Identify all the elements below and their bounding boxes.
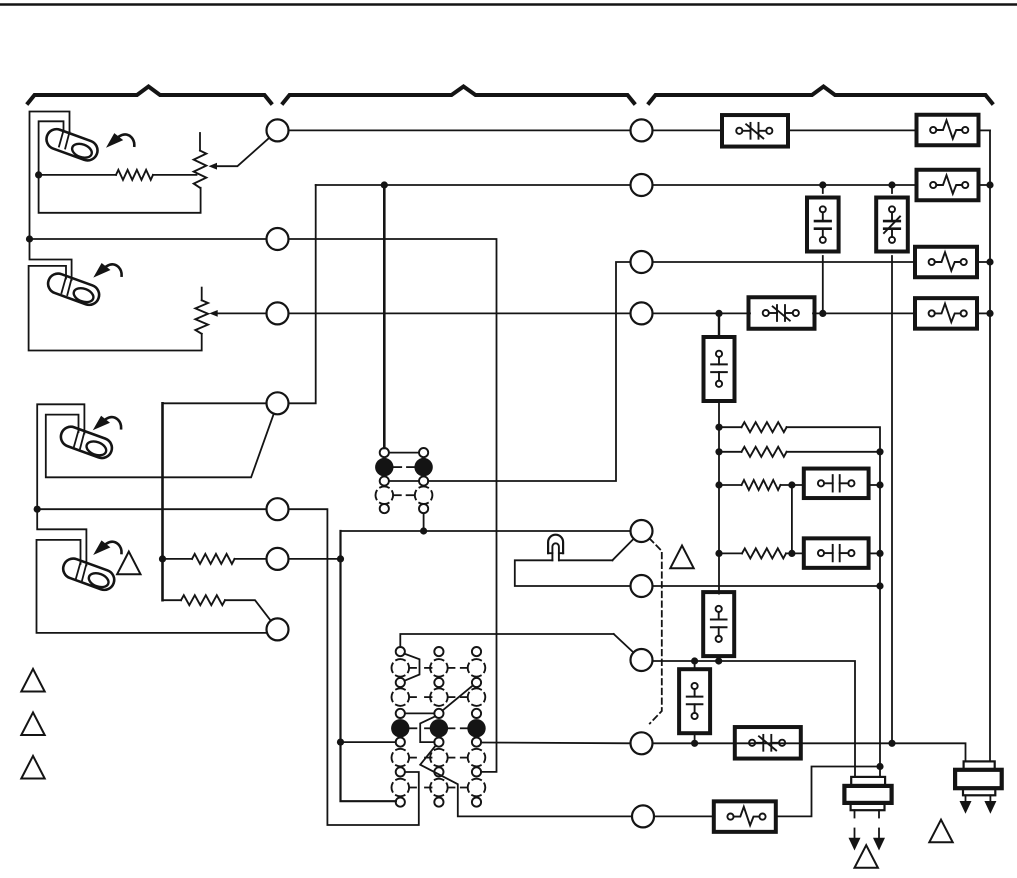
node: RA branch [715, 424, 722, 431]
jumper block filled position A [375, 458, 393, 476]
resistor RA [742, 422, 787, 432]
wire: R3 blade to terminal T7 [225, 600, 271, 621]
wire: row 185 [316, 184, 631, 186]
drum switch tie dashes [410, 668, 468, 788]
warning triangle near S4 [117, 552, 140, 575]
wire: S4 electrode B loop to T7 [37, 540, 268, 633]
wire: CPB to rail [869, 552, 880, 554]
plug P1 lead arrows [849, 810, 886, 850]
potentiometer P2 body [195, 300, 208, 333]
drum switch dashed cams row 758 [392, 749, 486, 767]
wire: M7 row to plug riser [653, 661, 856, 777]
wire: S3 electrode A hook down to node 509 [37, 404, 84, 509]
wire: R1 to potentiometer P1 body [153, 174, 197, 176]
capacitor box CPA [804, 469, 869, 499]
wire: T4 right up to row 185 [289, 185, 316, 403]
contact box K3 (NC) row 743 [735, 727, 801, 759]
resistor R1 [116, 170, 153, 180]
brace: right section [649, 87, 992, 104]
heater box H3 row 3 [915, 247, 977, 278]
wire: T5 right big loop to drum column [289, 509, 419, 825]
mercury switch S3 rotation arrow [93, 416, 121, 431]
wire: M4 row to right [653, 312, 751, 314]
link: col1 s3 to col2 s3 [405, 712, 434, 714]
wire: branch row 485 [719, 484, 742, 486]
right rail x990 [989, 130, 991, 761]
mercury switch S2 capsule [45, 271, 102, 308]
wire: vertical x340 [341, 531, 396, 801]
wire: branch row 452 [719, 451, 742, 453]
drum switch dashed cams row 668 [392, 659, 486, 677]
brace: left section [28, 87, 271, 104]
wire: jumper block top tie [389, 452, 419, 454]
heater box H1 row 1 [917, 115, 979, 146]
wire: M5 blade to lamp run [612, 539, 633, 561]
wire: feeder x384 to jumper block [383, 185, 386, 448]
wire: S3 electrode B loop and blade to T4 [46, 414, 274, 478]
wire: S1 electrode A hook to left rail [30, 112, 70, 240]
wire: CE bottom lead [694, 733, 696, 744]
wire: CE top lead [694, 661, 696, 670]
wire: M1 to relay box R1A [653, 129, 723, 131]
wire: M8 row to right plug [653, 743, 966, 761]
wire: H1 to right rail [979, 129, 991, 131]
wire: RD to capacitor box CPB [786, 552, 804, 554]
heater box H5 bottom [714, 801, 776, 832]
node: rail892 bottom tee [888, 740, 895, 747]
wire: row4 from H4 to rail [977, 312, 990, 314]
node: row 185 grid feeder [381, 181, 388, 188]
terminal M5 [631, 520, 653, 542]
wire: bold column x162 [161, 403, 164, 600]
contact box CB vertical with slash [876, 198, 908, 252]
warning triangle at plug P1 [855, 845, 878, 868]
wire: junction to terminal T2 [30, 238, 267, 240]
wire: M9 to contact box B2 [654, 815, 713, 817]
plug P2 body [955, 761, 1002, 795]
wire: T6 right to vertical x340 [289, 558, 341, 560]
node: CPA link top [788, 481, 795, 488]
wire: jumper block middle tie [389, 480, 419, 482]
node: rail880 row 586 [876, 582, 883, 589]
potentiometer P1 wiper arrow [209, 163, 218, 170]
terminal T5 [267, 498, 289, 520]
warning triangle list item 2 [21, 712, 44, 735]
mercury switch S2 electrodes [62, 277, 72, 295]
terminal T6 [267, 548, 289, 570]
wire: H2 to rail [979, 184, 991, 186]
node: rail880 row 766 [876, 763, 883, 770]
wire: R2 to terminal T6 [235, 558, 267, 560]
wire: lamp run right [559, 559, 613, 561]
contact box K2 (NC) row 4 [749, 297, 815, 329]
wire: lamp run left [515, 560, 631, 586]
terminal M2 [631, 174, 653, 196]
heater box H4 row 4 [915, 298, 977, 329]
warning triangle list item 3 [21, 756, 44, 779]
wire: row4 between boxes [813, 312, 915, 314]
wire: row 1 to middle terminal [289, 129, 631, 131]
drum switch filled cams row 728 [391, 719, 486, 737]
node: rail row 185 [986, 181, 993, 188]
mercury switch S1 electrodes [59, 131, 70, 149]
node: rail row 262 [986, 258, 993, 265]
wire: row 313 between T3 and middle terminal [289, 312, 631, 314]
wire: S2 electrode B loop to P2 bottom [29, 266, 202, 351]
warning triangle beside dashed link [670, 546, 693, 569]
wire: diagonal into M7 [614, 634, 634, 653]
node: CA bottom tee [819, 310, 826, 317]
wire: CC top lead [718, 313, 720, 337]
resistor R2 [192, 554, 235, 564]
terminal M6 [631, 575, 653, 597]
link: col2 s3 bypass to s4 [420, 716, 435, 742]
wire: jumper pin B bottom to row 531 [423, 513, 425, 531]
potentiometer P1 body [194, 151, 207, 188]
jumper block filled position B [414, 458, 432, 476]
terminal M9 [632, 805, 654, 827]
drum switch column 2 small contacts [434, 647, 443, 807]
node: RC branch [715, 481, 722, 488]
terminal T2 [267, 228, 289, 250]
wire: branch row 553 [719, 552, 742, 554]
node: rail880 row 553 [876, 550, 883, 557]
jumper block dashed position B [415, 486, 433, 504]
node: bold junction row 559 [159, 555, 166, 562]
warning triangle list item 1 [21, 669, 44, 692]
node: S1 inner junction [35, 171, 42, 178]
node: x340 row 559 [337, 555, 344, 562]
wire: CPA to rail [869, 484, 880, 486]
node: RD branch [715, 550, 722, 557]
node: x340 row 742 [337, 739, 344, 746]
drum switch dashed cams row 787 [392, 779, 486, 797]
link: col2 s4 exit to M9 wire [420, 746, 632, 817]
contact box K1 (NC) row 1 [722, 115, 788, 147]
contact box CE vertical [679, 669, 710, 733]
mercury switch S4 electrodes [76, 562, 86, 580]
wire: CD bottom lead [718, 656, 720, 661]
wire: S1 loop to P1 bottom [39, 175, 201, 213]
wire: CA bottom lead [822, 256, 824, 313]
wire: M3 row to right [653, 261, 916, 263]
wire: H3 to rail [977, 261, 990, 263]
mercury switch S4 capsule [60, 556, 117, 593]
potentiometer P2 wiper arrow [209, 310, 218, 317]
terminal M4 [631, 302, 653, 324]
wire: P2 wiper to terminal T3 [218, 312, 267, 314]
jumper block dashed position A [376, 486, 394, 504]
capacitor box CPB [804, 538, 869, 568]
wire: K1 to heat relay box H1 [788, 129, 916, 131]
node: rail row 313 [986, 310, 993, 317]
wire: CB top lead [891, 185, 893, 193]
mercury switch S3 electrodes [74, 431, 84, 449]
wire: S2 electrode A hook [30, 239, 72, 280]
node: RB branch [715, 448, 722, 455]
terminal T4 [267, 392, 289, 414]
terminal M1 [631, 119, 653, 141]
node: rail880 row 452 [876, 448, 883, 455]
wire: P1 wiper to terminal T1 [216, 138, 270, 166]
wire: H5 to riser [777, 767, 881, 817]
indicator lamp [548, 535, 563, 561]
wire: S1 electrode B hook to junction [39, 121, 64, 175]
node: CD bottom tee [715, 657, 722, 664]
mercury switch S1 rotation arrow [106, 133, 134, 148]
wire: RA to right rail x880 [787, 427, 880, 777]
wire: M2 row to right [653, 184, 917, 186]
node: CE bottom tee [691, 740, 698, 747]
contact box CA vertical [807, 198, 839, 252]
wire: junction to resistor R1 [39, 174, 116, 176]
wire: jumper mid row to terminal M3 riser [428, 262, 630, 481]
wire: RB to rail [787, 451, 880, 453]
link: col3 s2 to col2 s3 [443, 685, 473, 710]
wire: link rows 485-553 [791, 485, 793, 553]
wire: col3 s4 to terminal M8 [481, 742, 630, 745]
drum switch column 1 small contacts [396, 647, 405, 807]
link: col1 bypass s1-s2 [404, 654, 419, 681]
wire: P2 top lead [201, 288, 203, 301]
heater box H2 row 2 [917, 170, 979, 201]
drum switch dashed cams row 697 [392, 688, 486, 706]
node: CB top tee [888, 181, 895, 188]
wire: M6 row to right rail [653, 585, 881, 587]
jumper block pin column B small contacts [419, 448, 428, 513]
node: rail880 row 485 [876, 481, 883, 488]
wire: resistor rail branch row 427 [719, 426, 742, 428]
wire: row 531 from corner x340 to terminal M5 [341, 530, 631, 532]
dashed gang link M5 to M8 [650, 539, 662, 724]
wire: CA top lead [822, 185, 824, 193]
mercury switch S2 rotation arrow [93, 263, 121, 278]
wire: bold column bottom into R3 [163, 599, 182, 601]
terminal T1 [267, 119, 289, 141]
contact box CC vertical [704, 337, 735, 401]
resistor R3 [181, 595, 225, 605]
page top border [0, 3, 1017, 5]
plug P2 lead arrows [960, 795, 997, 814]
node: CPB link bottom [788, 550, 795, 557]
wire: T4 left to bold column [163, 402, 267, 404]
mercury switch S1 capsule [44, 126, 101, 163]
terminal T7 [267, 618, 289, 640]
wire: junction to resistor R2 [163, 558, 193, 560]
jumper block tie dashes row 467 [394, 466, 414, 468]
wire: S4 electrode A hook [37, 509, 86, 565]
resistor RC [742, 480, 781, 490]
resistor RB [742, 447, 787, 457]
jumper block pin column A small contacts [380, 448, 389, 513]
brace: middle section [283, 87, 634, 104]
node: CE top tee [691, 657, 698, 664]
wire: P1 top lead [199, 133, 201, 151]
mercury switch S3 capsule [58, 424, 115, 461]
terminal M8 [631, 732, 653, 754]
wire: CC bottom rail to box CD [718, 401, 720, 594]
wire: top feed to drum col1 and terminal M7 [400, 634, 613, 647]
resistor RD [742, 548, 786, 558]
wire: node to terminal T5 [37, 508, 266, 510]
contact box CD vertical [703, 592, 734, 656]
drum switch column 3 small contacts [472, 647, 481, 807]
wire: RC to capacitor box CPA [780, 484, 803, 486]
wire: T2 to grid feeder corner [289, 239, 497, 772]
node: junction left rail row 239 [26, 235, 33, 242]
plug P1 body [844, 777, 891, 810]
node: row 531 [420, 527, 427, 534]
node: CC feed row 313 [715, 310, 722, 317]
terminal M3 [631, 251, 653, 273]
node: x37 row 509 [34, 506, 41, 513]
warning triangle at plug P2 [929, 820, 952, 843]
wire: CB bottom rail x892 [891, 256, 893, 743]
terminal T3 [267, 302, 289, 324]
jumper block tie dashes row 495 [394, 494, 414, 496]
terminal M7 [631, 649, 653, 671]
wire: x340 branch to drum col1 contact s4 [341, 741, 396, 743]
mercury switch S4 rotation arrow [93, 540, 121, 555]
node: CA top tee [819, 181, 826, 188]
